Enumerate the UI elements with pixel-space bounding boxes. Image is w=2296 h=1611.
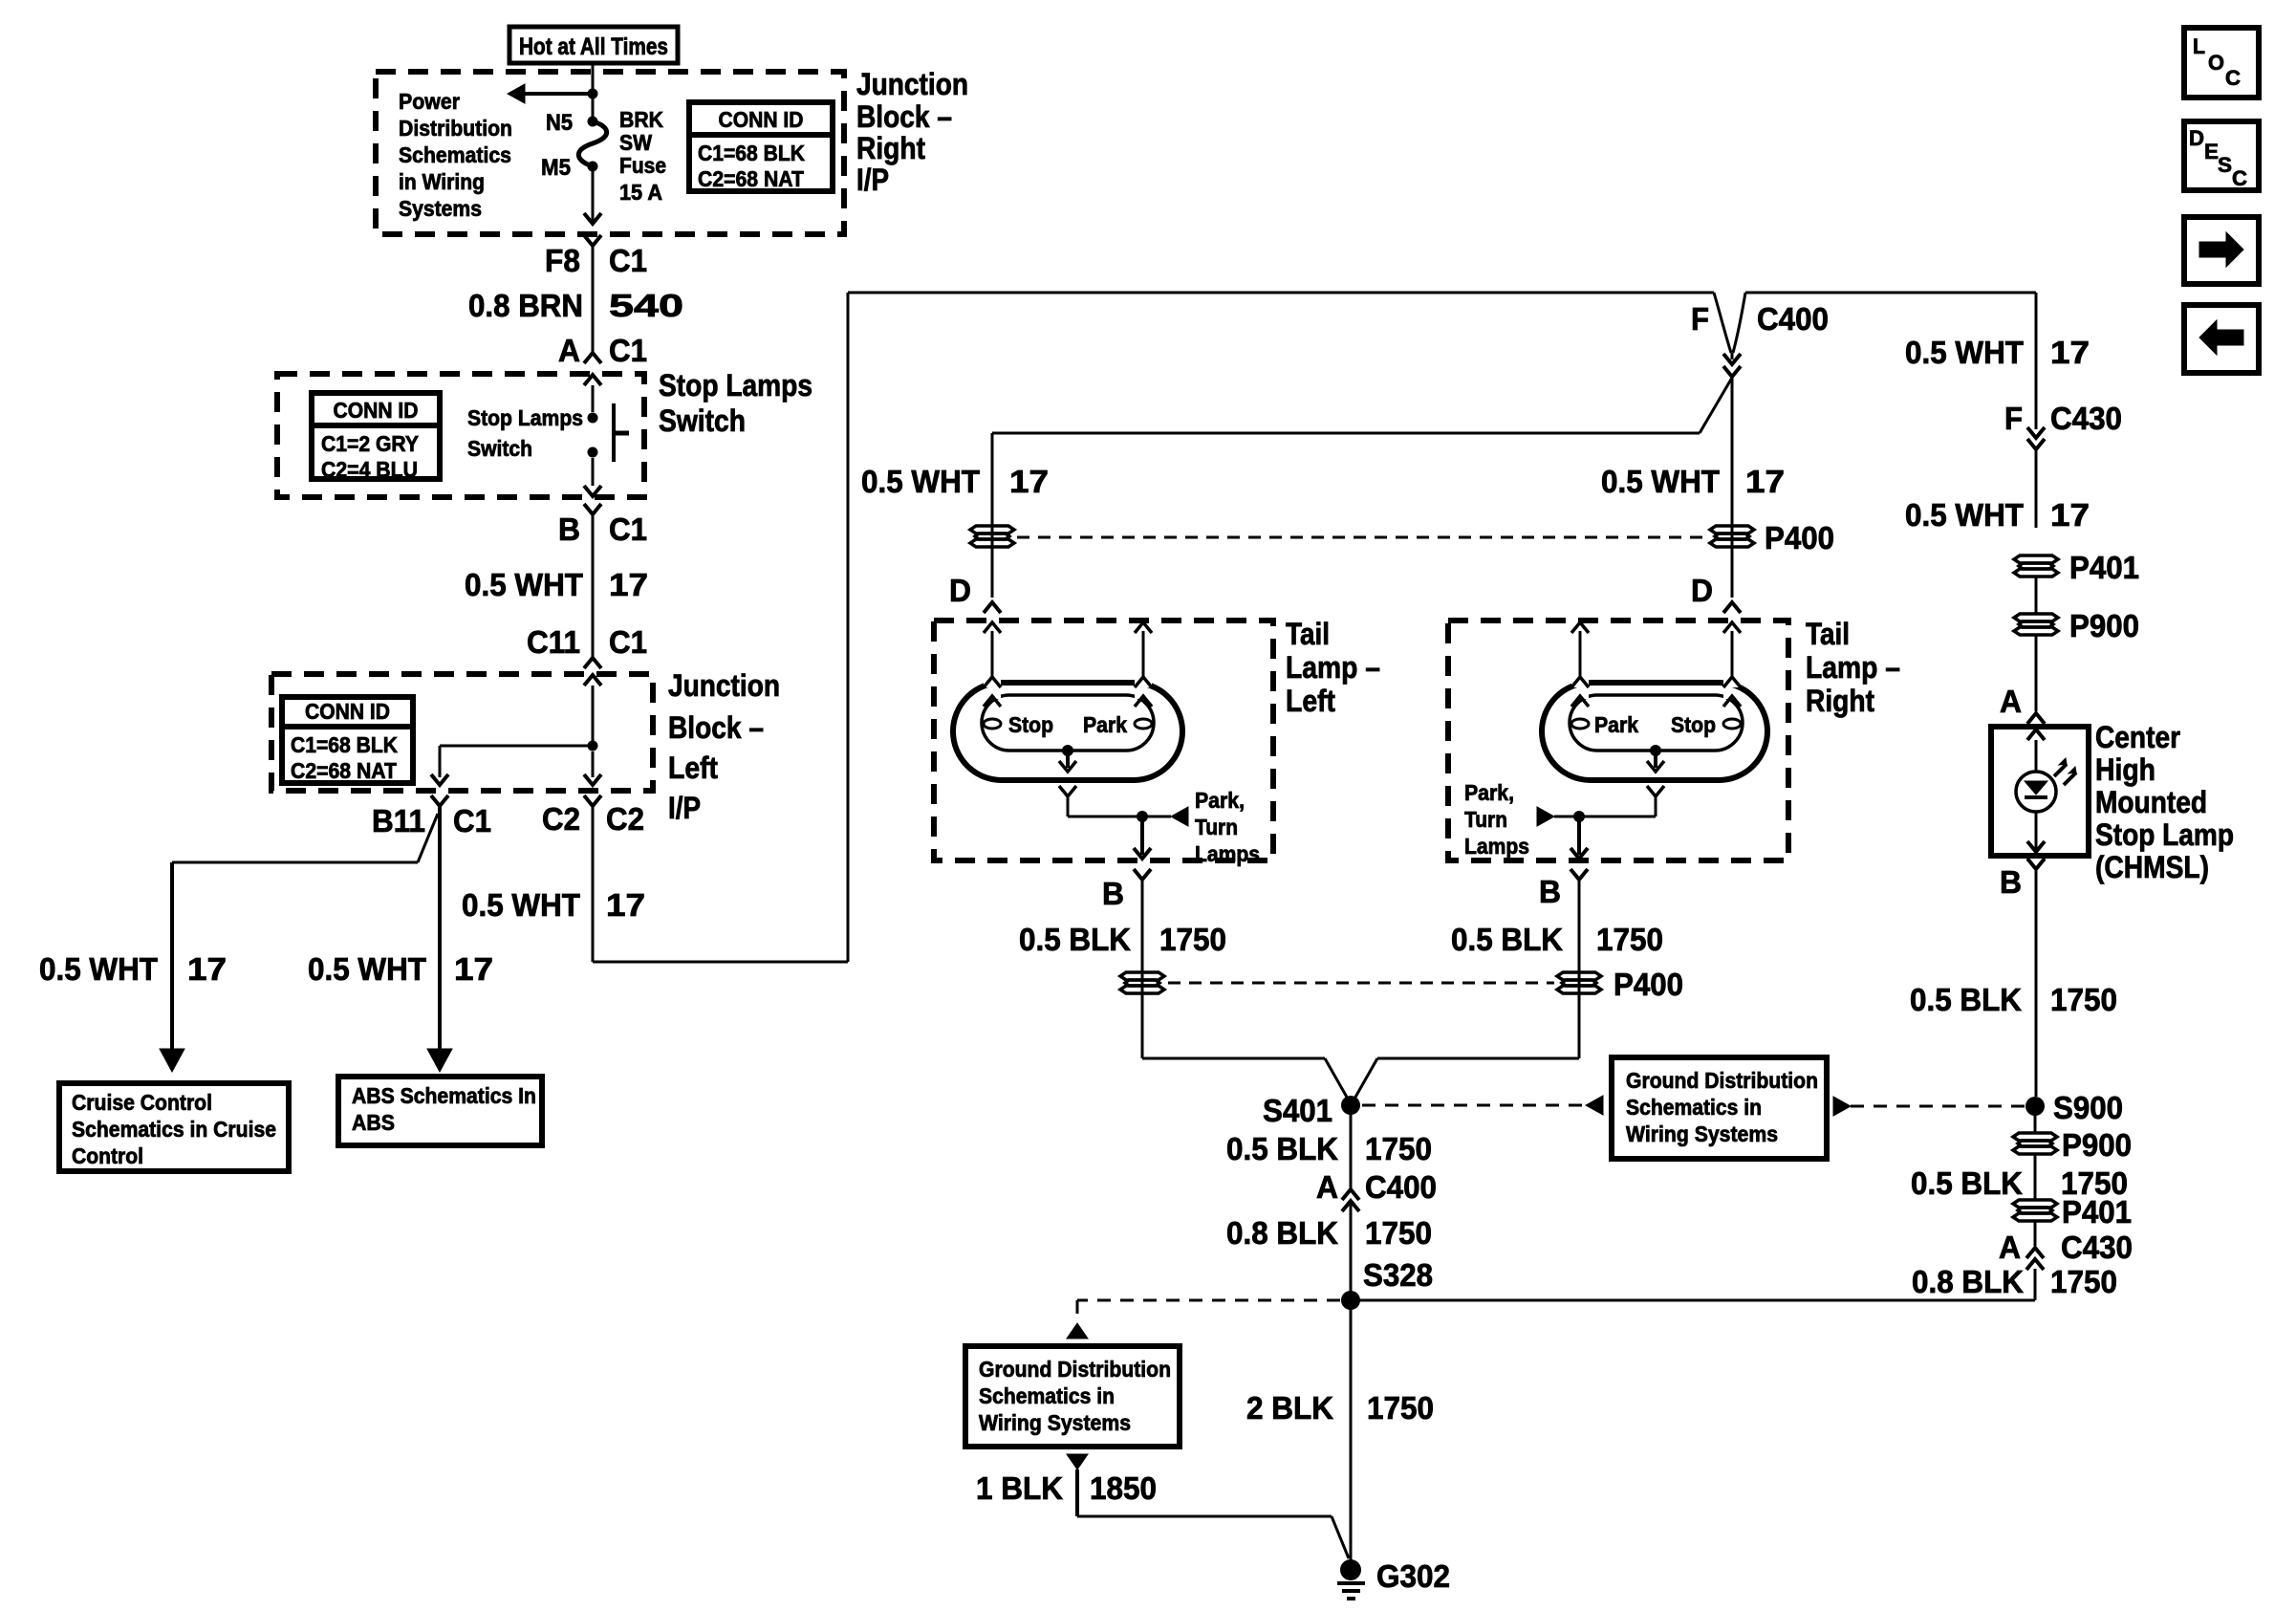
connector funnel D right xyxy=(1723,602,1741,613)
svg-text:B: B xyxy=(558,512,580,547)
svg-text:P401: P401 xyxy=(2069,550,2139,585)
switch blade xyxy=(612,403,616,462)
svg-text:SW: SW xyxy=(619,130,652,155)
C400 funnel left arm xyxy=(1714,293,1731,353)
svg-text:17: 17 xyxy=(187,951,227,987)
svg-text:Left: Left xyxy=(668,751,718,785)
svg-text:0.5 BLK: 0.5 BLK xyxy=(1911,1165,2023,1201)
tail lamp right arrow at B exit xyxy=(1570,848,1588,859)
svg-text:Systems: Systems xyxy=(399,196,482,221)
svg-text:C430: C430 xyxy=(2050,401,2122,436)
svg-text:S401: S401 xyxy=(1263,1093,1332,1128)
wire junction to fuse N5 xyxy=(592,94,595,121)
wire P900 to P401 lower xyxy=(2034,1153,2037,1201)
wire junction to left arrow xyxy=(525,92,593,96)
svg-text:17: 17 xyxy=(1009,464,1049,499)
wire 0.5 WHT 17 to junction block left xyxy=(592,514,595,658)
tail lamp right B wire down xyxy=(1578,880,1581,1058)
svg-text:CONN ID: CONN ID xyxy=(334,398,419,423)
internal branch wire xyxy=(440,745,593,748)
svg-text:Lamps: Lamps xyxy=(1195,841,1260,866)
svg-text:Fuse: Fuse xyxy=(619,153,666,178)
svg-text:Stop Lamps: Stop Lamps xyxy=(659,368,812,403)
wire left lamp to splice xyxy=(1142,1057,1325,1060)
Stop Lamps Switch dashed box xyxy=(277,374,644,497)
arrow inside CHMSL bottom xyxy=(2027,841,2045,852)
connector funnel B xyxy=(584,504,601,514)
LED cathode bar xyxy=(2025,795,2047,799)
wire inside junction left xyxy=(592,686,595,746)
tail lamp left bulb filament loop xyxy=(982,695,1154,751)
triangle below ground box 2 xyxy=(1067,1454,1088,1469)
svg-text:0.5 WHT: 0.5 WHT xyxy=(1905,335,2024,370)
C400 connector arrow xyxy=(1723,354,1741,364)
svg-text:Stop Lamps: Stop Lamps xyxy=(467,405,583,430)
tail lamp left park turn feed wire xyxy=(1142,816,1171,818)
wire S328 to right column xyxy=(1351,1299,2035,1302)
CONN ID box junction right xyxy=(689,102,833,191)
switch lower contact dot xyxy=(588,447,598,458)
DESC icon box xyxy=(2184,121,2259,190)
connector C400-A upper chevron xyxy=(1342,1189,1359,1200)
wire S401 to C400-A xyxy=(1350,1105,1353,1189)
svg-text:15 A: 15 A xyxy=(619,180,662,205)
svg-text:Lamps: Lamps xyxy=(1464,834,1529,859)
svg-text:I/P: I/P xyxy=(856,163,889,197)
svg-text:1850: 1850 xyxy=(1090,1470,1157,1506)
svg-text:Lamp –: Lamp – xyxy=(1286,650,1380,685)
arrowhead into ABS box xyxy=(427,1049,452,1072)
svg-text:ABS: ABS xyxy=(352,1110,395,1135)
svg-text:C: C xyxy=(2232,166,2247,190)
svg-text:17: 17 xyxy=(609,567,648,602)
tail lamp right terminal bead right xyxy=(1723,719,1741,729)
tail lamp right terminal bead left xyxy=(1571,719,1589,729)
arrow inside junction left top xyxy=(584,675,601,686)
svg-text:B11: B11 xyxy=(372,803,425,838)
svg-text:CONN ID: CONN ID xyxy=(305,699,390,724)
svg-text:P900: P900 xyxy=(2069,608,2139,643)
svg-text:Stop Lamp: Stop Lamp xyxy=(2095,817,2234,852)
Junction Block - Right I/P dashed box xyxy=(376,72,844,234)
svg-text:Switch: Switch xyxy=(659,403,746,438)
svg-text:0.8 BLK: 0.8 BLK xyxy=(1226,1215,1338,1251)
svg-text:C400: C400 xyxy=(1365,1169,1437,1205)
tail lamp left bulb exit funnel xyxy=(1059,786,1076,796)
wire to switch contact xyxy=(592,385,595,412)
tail lamp left park/turn junction dot xyxy=(1137,811,1148,822)
node N5 xyxy=(588,117,598,127)
svg-text:N5: N5 xyxy=(546,110,573,136)
svg-text:Schematics in: Schematics in xyxy=(1626,1095,1762,1120)
svg-text:B: B xyxy=(1539,874,1561,909)
tail lamp left connector funnel B xyxy=(1134,869,1151,880)
grommet P401 lower xyxy=(2013,1200,2057,1221)
svg-text:A: A xyxy=(1316,1169,1338,1205)
grommet P401 upper xyxy=(2014,555,2058,577)
svg-text:BRK: BRK xyxy=(619,107,663,132)
svg-text:S328: S328 xyxy=(1363,1257,1433,1293)
svg-text:Schematics in: Schematics in xyxy=(979,1383,1115,1408)
tail lamp right dashed box xyxy=(1448,620,1788,860)
svg-text:Distribution: Distribution xyxy=(399,116,512,141)
svg-text:in Wiring: in Wiring xyxy=(399,169,485,194)
svg-text:1750: 1750 xyxy=(2050,1264,2117,1299)
connector funnel A CHMSL xyxy=(2027,713,2045,724)
grommet P400 left lower xyxy=(1120,972,1164,993)
dashed P400 pair line upper xyxy=(1017,536,1707,539)
svg-text:C1: C1 xyxy=(609,624,647,660)
svg-text:Block –: Block – xyxy=(856,99,952,134)
tail lamp right bulb exit funnel xyxy=(1647,786,1664,796)
svg-text:M5: M5 xyxy=(541,155,571,181)
dashed S328 reference line xyxy=(1077,1299,1340,1302)
LED diode triangle xyxy=(2025,781,2047,795)
wire to ground run xyxy=(1077,1515,1332,1518)
svg-text:C2=68 NAT: C2=68 NAT xyxy=(291,758,397,783)
svg-text:C1=68 BLK: C1=68 BLK xyxy=(698,141,805,165)
svg-text:0.5 WHT: 0.5 WHT xyxy=(462,887,580,923)
svg-text:17: 17 xyxy=(2050,335,2090,370)
svg-text:0.5 BLK: 0.5 BLK xyxy=(1910,982,2022,1017)
svg-text:High: High xyxy=(2095,752,2155,787)
tail lamp right bulb exit arrow xyxy=(1654,751,1657,768)
svg-text:1750: 1750 xyxy=(2050,982,2117,1017)
wire S900 to P900 xyxy=(2034,1106,2037,1134)
wire C400 down to right tail lamp xyxy=(1731,377,1734,598)
arrow inside CHMSL top xyxy=(2027,729,2045,740)
wire diagonal into G302 xyxy=(1332,1516,1349,1558)
svg-text:C2: C2 xyxy=(606,801,644,837)
svg-text:CONN ID: CONN ID xyxy=(719,107,804,132)
svg-text:B: B xyxy=(1102,876,1124,911)
junction dot xyxy=(588,89,598,99)
ground symbol bar 1 xyxy=(1337,1581,1365,1585)
svg-text:Turn: Turn xyxy=(1464,807,1507,832)
svg-text:D: D xyxy=(1691,573,1713,608)
wire P401 to P900 xyxy=(2035,576,2038,615)
svg-text:C1=68 BLK: C1=68 BLK xyxy=(291,732,398,757)
svg-text:17: 17 xyxy=(606,887,645,923)
tail lamp left terminal bead right xyxy=(1135,719,1152,729)
svg-text:ABS Schematics In: ABS Schematics In xyxy=(352,1083,536,1108)
svg-text:P401: P401 xyxy=(2062,1194,2132,1230)
svg-text:A: A xyxy=(2000,684,2022,719)
svg-text:C1: C1 xyxy=(609,333,647,368)
splice S328 xyxy=(1341,1291,1360,1310)
svg-text:Park: Park xyxy=(1083,712,1127,737)
wire M5 down xyxy=(592,166,595,223)
tail lamp right exit wire to junction xyxy=(1655,796,1657,816)
svg-text:B: B xyxy=(2000,864,2022,900)
svg-text:0.8 BLK: 0.8 BLK xyxy=(1912,1264,2024,1299)
svg-text:1 BLK: 1 BLK xyxy=(976,1470,1063,1506)
svg-text:17: 17 xyxy=(454,951,493,987)
dashed reference to S900 xyxy=(1851,1105,2026,1108)
tail lamp right park terminal wire xyxy=(1731,631,1734,677)
svg-text:1750: 1750 xyxy=(1596,922,1663,957)
tail lamp right filament junction dot xyxy=(1650,745,1661,756)
ground symbol bar 2 xyxy=(1342,1589,1360,1593)
Ground Distribution reference box right xyxy=(1612,1057,1827,1159)
splice S401 xyxy=(1341,1096,1360,1115)
tail lamp left B wire down xyxy=(1141,880,1144,1058)
connector funnel B11 xyxy=(431,795,448,806)
svg-text:0.5 WHT: 0.5 WHT xyxy=(1601,464,1720,499)
svg-text:Park,: Park, xyxy=(1464,780,1514,805)
wire B11 to ABS xyxy=(438,806,442,1049)
internal branch down B11 xyxy=(439,746,442,777)
svg-text:1750: 1750 xyxy=(1365,1215,1432,1251)
wire riser to top rail xyxy=(847,293,850,962)
triangle at ground box right xyxy=(1833,1097,1851,1116)
svg-text:0.5 WHT: 0.5 WHT xyxy=(308,951,426,987)
svg-text:Ground Distribution: Ground Distribution xyxy=(979,1357,1171,1382)
connector C430-F funnel xyxy=(2027,439,2045,449)
prev arrow icon box xyxy=(2184,305,2259,373)
svg-text:1750: 1750 xyxy=(1367,1390,1434,1426)
svg-text:0.8 BRN: 0.8 BRN xyxy=(468,288,583,323)
tail lamp left bulb exit arrow xyxy=(1066,751,1070,768)
svg-text:Hot at All Times: Hot at All Times xyxy=(519,33,668,60)
svg-text:C2=4 BLU: C2=4 BLU xyxy=(321,457,418,482)
svg-text:L: L xyxy=(2193,34,2205,58)
svg-text:Schematics in Cruise: Schematics in Cruise xyxy=(72,1117,276,1142)
svg-text:Tail: Tail xyxy=(1806,617,1850,651)
svg-text:F: F xyxy=(1691,301,1709,337)
svg-text:C2=68 NAT: C2=68 NAT xyxy=(698,166,804,191)
svg-text:Cruise Control: Cruise Control xyxy=(72,1090,212,1115)
wire top rail down to C430 xyxy=(2035,293,2038,429)
Junction Block - Left I/P dashed box xyxy=(271,674,653,791)
wire diagonal left into S401 xyxy=(1325,1058,1349,1100)
grommet P400 left upper xyxy=(970,526,1014,547)
arrowhead into cruise control box xyxy=(160,1049,184,1072)
svg-text:Control: Control xyxy=(72,1143,143,1168)
svg-text:P400: P400 xyxy=(1614,967,1683,1002)
connector C430-A lower chevron xyxy=(2026,1259,2044,1270)
svg-text:C11: C11 xyxy=(527,624,580,660)
wire branch to cruise control xyxy=(172,861,418,864)
tail lamp left park turn triangle xyxy=(1171,807,1188,826)
svg-text:540: 540 xyxy=(609,288,683,323)
svg-text:Right: Right xyxy=(856,131,925,165)
tail lamp right park turn triangle xyxy=(1537,807,1554,826)
tail lamp right stop terminal wire xyxy=(1579,631,1582,677)
connector C430-F arrow xyxy=(2027,427,2045,438)
arrow at switch box exit xyxy=(584,486,601,496)
svg-text:0.5 BLK: 0.5 BLK xyxy=(1226,1131,1338,1166)
arrowhead to power distribution xyxy=(508,84,525,103)
svg-text:Park: Park xyxy=(1594,712,1638,737)
LED radiation arrow 2 xyxy=(2064,773,2076,785)
svg-text:F8: F8 xyxy=(545,243,580,278)
connector C430-A upper chevron xyxy=(2026,1248,2044,1258)
wire diagonal into C400 xyxy=(1700,378,1732,433)
grommet P900 lower xyxy=(2013,1133,2057,1154)
wire 0.8 BRN 540 xyxy=(592,246,595,353)
ABS reference box xyxy=(338,1077,542,1145)
svg-text:Left: Left xyxy=(1286,684,1335,718)
svg-text:Schematics: Schematics xyxy=(399,142,511,167)
connector funnel C2 xyxy=(584,795,601,806)
dashed S401 reference line xyxy=(1362,1104,1585,1107)
CHMSL box xyxy=(1991,727,2089,856)
junction left internal dot xyxy=(588,741,598,751)
wire to LED xyxy=(2035,740,2038,772)
svg-text:Tail: Tail xyxy=(1286,617,1330,651)
svg-text:17: 17 xyxy=(2050,497,2090,533)
svg-text:P900: P900 xyxy=(2062,1127,2132,1163)
svg-text:G302: G302 xyxy=(1376,1558,1450,1594)
svg-text:Ground Distribution: Ground Distribution xyxy=(1626,1068,1818,1093)
fuse BRK SW 15A element xyxy=(578,121,606,166)
wire P900 to CHMSL xyxy=(2035,634,2038,711)
prev arrow glyph xyxy=(2199,320,2243,355)
svg-text:0.5 BLK: 0.5 BLK xyxy=(1019,922,1131,957)
tail lamp right park/turn junction dot xyxy=(1573,811,1585,822)
next arrow glyph xyxy=(2199,232,2243,267)
C400 connector funnel xyxy=(1723,366,1741,377)
LED radiation arrow 1 xyxy=(2054,764,2067,776)
wire 1 BLK 1850 xyxy=(1075,1469,1079,1516)
svg-text:Center: Center xyxy=(2095,720,2180,754)
CONN ID box junction left xyxy=(282,697,413,783)
dashed P400 pair line lower xyxy=(1168,982,1554,985)
grommet P900 upper xyxy=(2014,614,2058,635)
svg-text:C1: C1 xyxy=(609,243,647,278)
splice S900 xyxy=(2025,1097,2045,1116)
svg-text:S: S xyxy=(2218,153,2232,177)
triangle at ground box left xyxy=(1586,1096,1603,1115)
top rail wire left of C400 xyxy=(848,292,1714,294)
tail lamp right park turn feed wire xyxy=(1554,816,1579,818)
svg-text:C: C xyxy=(2225,66,2241,90)
node M5 xyxy=(588,162,598,172)
ground symbol bar 3 xyxy=(1347,1597,1355,1600)
wire branch horizontal xyxy=(992,432,1700,435)
C400 stub xyxy=(1731,353,1734,359)
wire right lamp to splice xyxy=(1377,1057,1579,1060)
svg-text:Wiring Systems: Wiring Systems xyxy=(979,1410,1131,1435)
svg-text:Turn: Turn xyxy=(1195,815,1238,839)
wire down to cruise control xyxy=(170,862,174,1049)
svg-text:E: E xyxy=(2204,140,2219,163)
tail lamp right B exit wire xyxy=(1577,816,1581,855)
svg-text:C430: C430 xyxy=(2061,1230,2133,1265)
svg-text:0.5 BLK: 0.5 BLK xyxy=(1451,922,1563,957)
svg-text:Stop: Stop xyxy=(1671,712,1716,737)
wire diagonal right into S401 xyxy=(1354,1058,1377,1100)
svg-text:Junction: Junction xyxy=(668,668,780,703)
tail lamp left stop terminal wire xyxy=(991,631,994,677)
LOC icon box xyxy=(2184,28,2259,98)
internal wire down C2 xyxy=(592,751,595,777)
Cruise Control reference box xyxy=(59,1083,289,1171)
svg-text:P400: P400 xyxy=(1765,520,1834,555)
svg-text:Switch: Switch xyxy=(467,436,532,461)
wire C2 horizontal xyxy=(593,961,848,964)
svg-text:C400: C400 xyxy=(1757,301,1829,337)
tail lamp left dashed box xyxy=(934,620,1273,860)
svg-text:Lamp –: Lamp – xyxy=(1806,650,1900,685)
wire down to left tail lamp xyxy=(991,433,994,598)
svg-text:Power: Power xyxy=(399,89,460,114)
svg-text:A: A xyxy=(558,333,580,368)
Ground Distribution reference box bottom xyxy=(965,1346,1180,1447)
svg-text:1750: 1750 xyxy=(1365,1131,1432,1166)
triangle above ground box 2 xyxy=(1067,1323,1088,1339)
wire right column to S328 corner xyxy=(2034,1269,2037,1300)
svg-text:0.5 WHT: 0.5 WHT xyxy=(1905,497,2024,533)
arrow at B11 exit xyxy=(431,774,448,785)
wire LED down xyxy=(2035,812,2038,849)
ground G302 xyxy=(1340,1559,1361,1580)
svg-text:C2: C2 xyxy=(542,801,580,837)
svg-text:F: F xyxy=(2004,401,2023,436)
tail lamp left park terminal wire xyxy=(1142,631,1145,677)
tail lamp left B exit wire xyxy=(1140,816,1144,855)
wire P401 to C430-A xyxy=(2034,1220,2037,1246)
tail lamp right bulb outer xyxy=(1542,683,1767,780)
wire 0.8 BLK to S328 xyxy=(1350,1201,1353,1300)
switch blade tick xyxy=(614,431,629,436)
wire B11 diagonal branch xyxy=(418,814,438,862)
svg-text:Right: Right xyxy=(1806,684,1874,718)
wire switch to box exit xyxy=(592,458,595,486)
top rail wire right of C400 xyxy=(1745,292,2036,294)
wire C2 down xyxy=(592,806,595,962)
svg-text:O: O xyxy=(2208,51,2224,75)
svg-text:Stop: Stop xyxy=(1008,712,1053,737)
arrow at C2 exit xyxy=(584,774,601,785)
svg-text:0.5 WHT: 0.5 WHT xyxy=(39,951,158,987)
tail lamp left filament junction dot xyxy=(1062,745,1073,756)
svg-text:(CHMSL): (CHMSL) xyxy=(2095,850,2209,884)
svg-text:0.5 WHT: 0.5 WHT xyxy=(861,464,980,499)
svg-text:C1: C1 xyxy=(453,803,491,838)
connector funnel D left xyxy=(984,602,1001,613)
tail lamp left exit wire to junction xyxy=(1067,796,1070,816)
svg-text:Park,: Park, xyxy=(1195,788,1245,813)
connector funnel C11 xyxy=(584,658,601,668)
svg-text:C1=2 GRY: C1=2 GRY xyxy=(321,431,419,456)
svg-text:C1: C1 xyxy=(609,512,647,547)
svg-text:Junction: Junction xyxy=(856,67,968,101)
connector funnel B CHMSL xyxy=(2027,859,2045,869)
svg-text:2 BLK: 2 BLK xyxy=(1246,1390,1333,1426)
svg-text:S900: S900 xyxy=(2053,1090,2123,1125)
dashed S328 reference drop xyxy=(1076,1300,1079,1323)
tail lamp left arrow at B exit xyxy=(1134,848,1151,859)
svg-text:A: A xyxy=(1999,1230,2021,1265)
tail lamp right connector funnel B xyxy=(1570,869,1588,880)
svg-text:0.5 WHT: 0.5 WHT xyxy=(465,567,583,602)
tail lamp right bulb filament loop xyxy=(1570,695,1743,751)
next arrow icon box xyxy=(2184,217,2259,284)
wire hot to junction xyxy=(592,63,595,94)
arrow at box exit xyxy=(584,213,601,224)
connector C400-A lower chevron xyxy=(1342,1201,1359,1211)
svg-text:Wiring Systems: Wiring Systems xyxy=(1626,1121,1778,1146)
svg-text:I/P: I/P xyxy=(668,791,701,825)
svg-text:Mounted: Mounted xyxy=(2095,785,2207,819)
connector funnel F8 xyxy=(584,235,601,246)
wire 2 BLK 1750 xyxy=(1350,1300,1353,1562)
wire 0.5 BLK CHMSL down xyxy=(2035,869,2038,1097)
CONN ID box stop lamps switch xyxy=(312,393,440,482)
switch upper contact dot xyxy=(588,413,598,424)
